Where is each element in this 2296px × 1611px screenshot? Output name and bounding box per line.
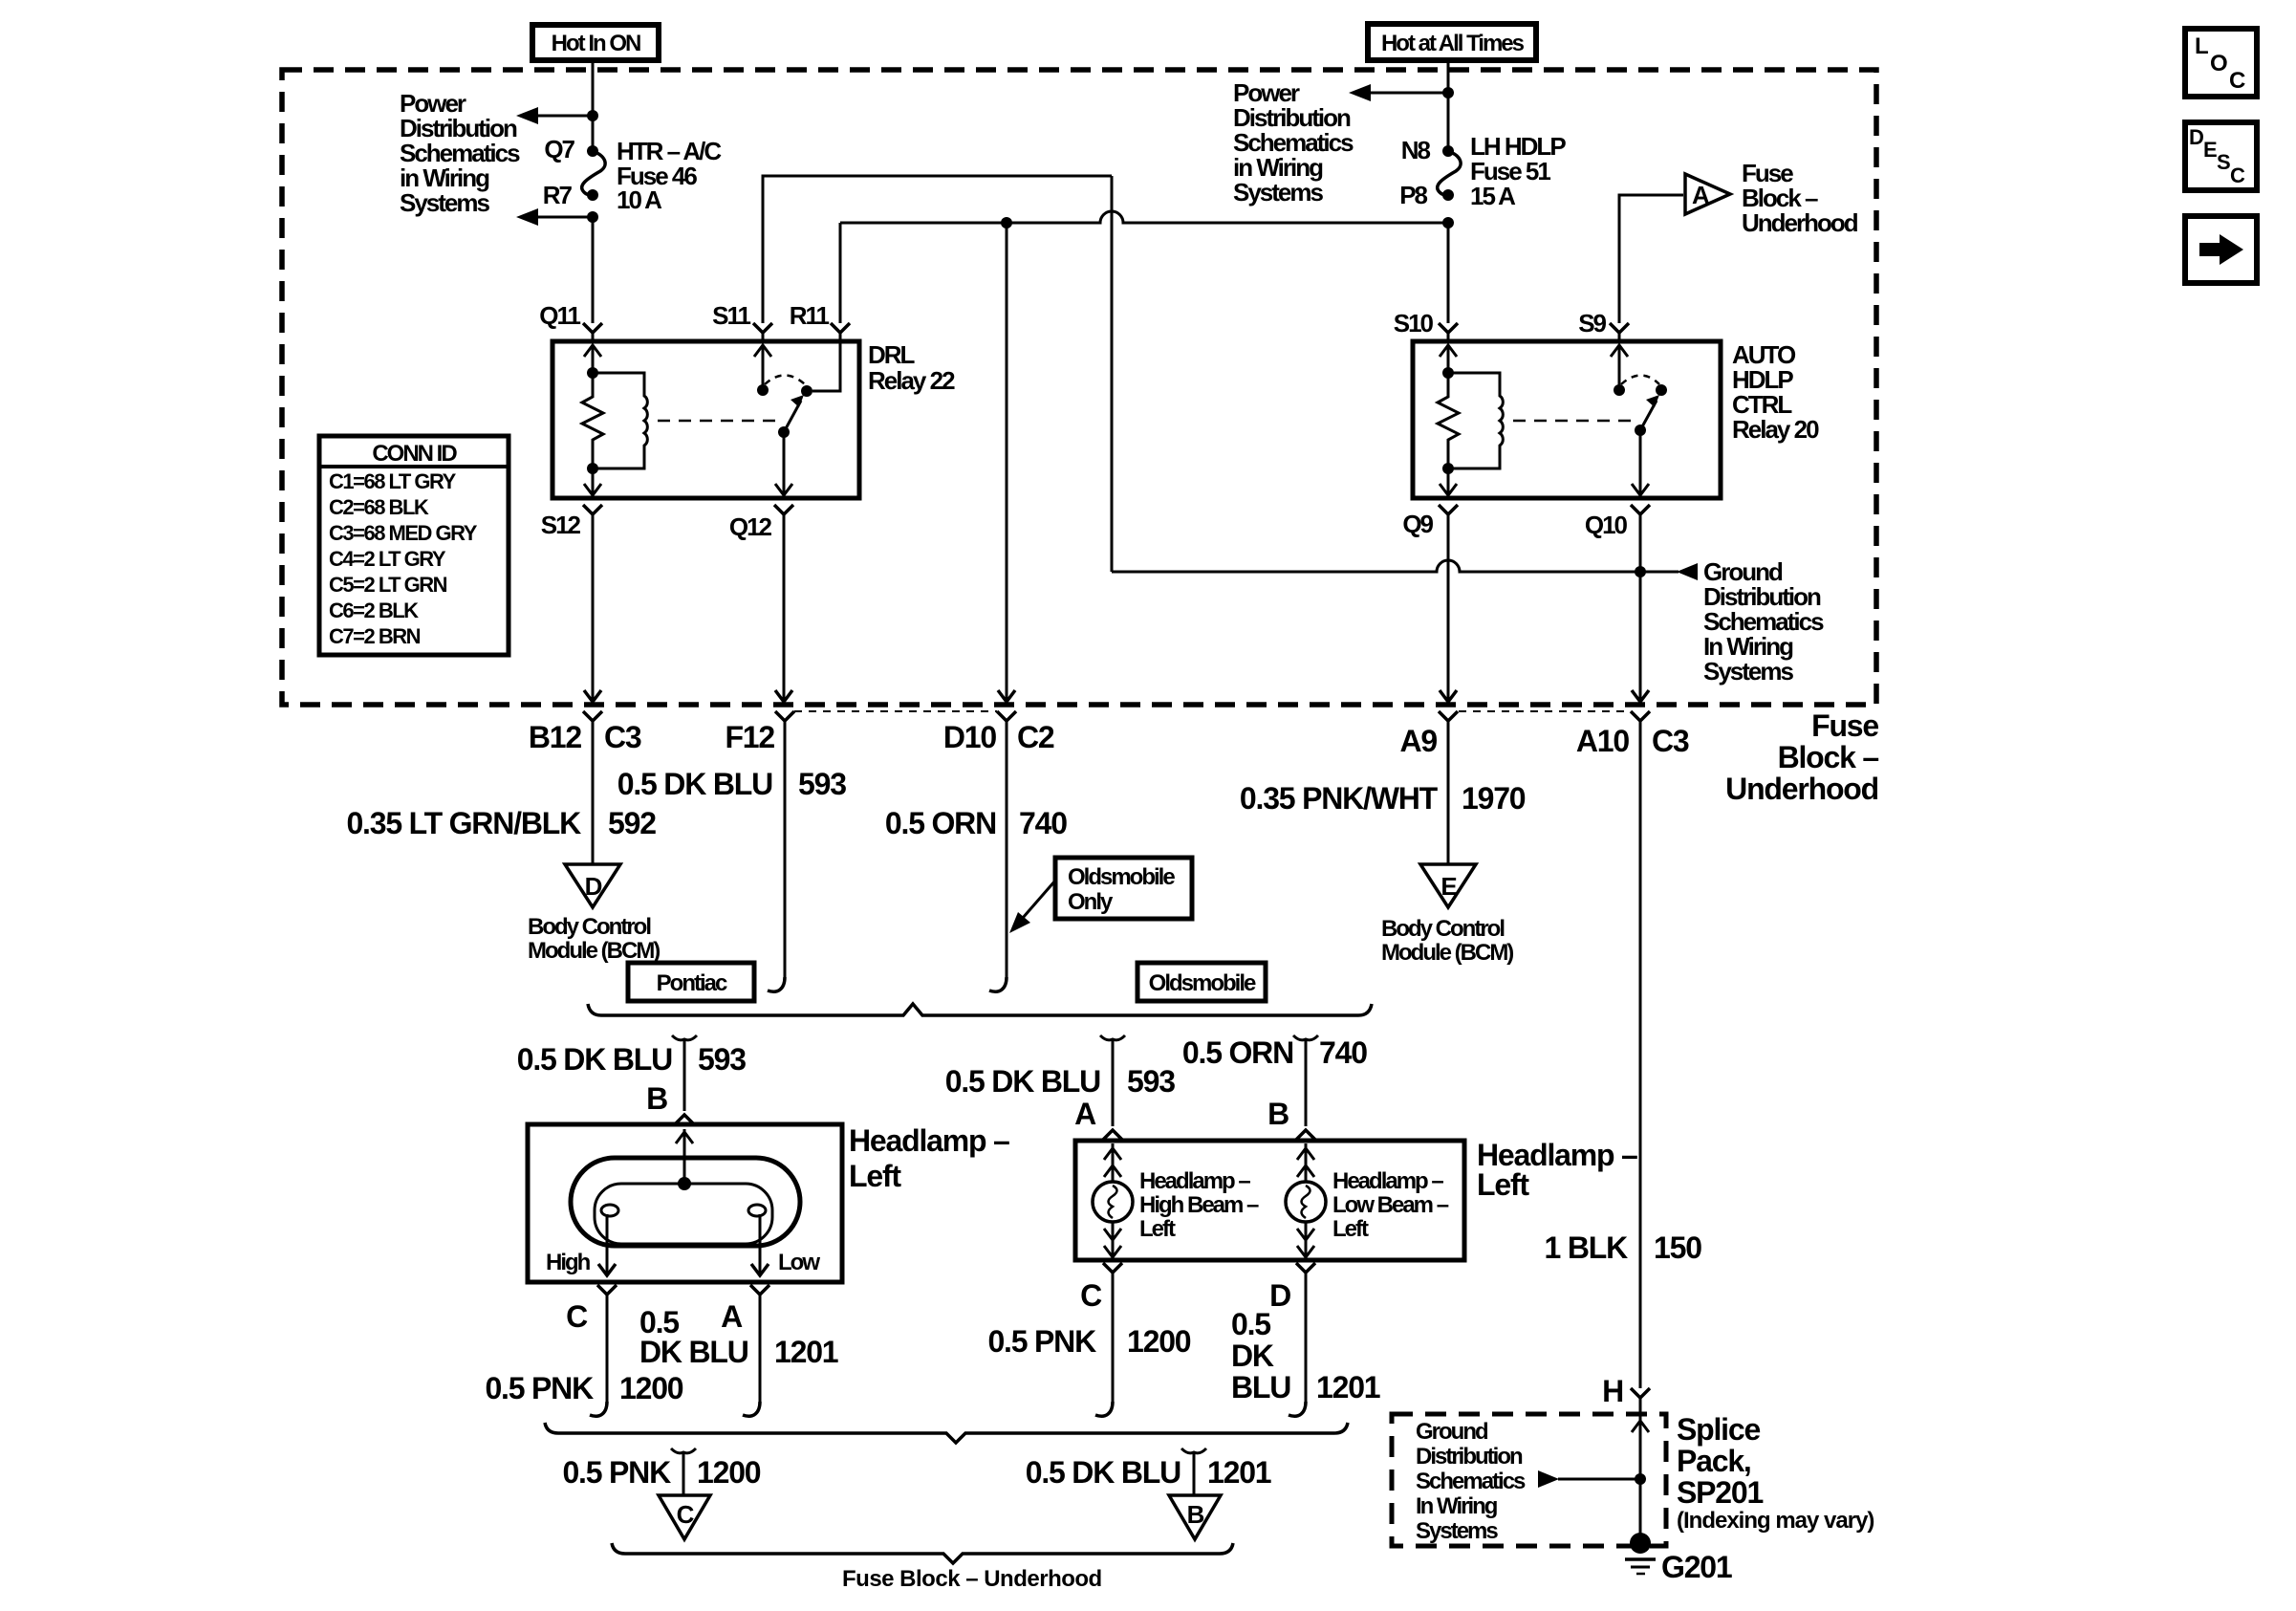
label AUTO HDLP CTRL Relay 20 [1732,340,1819,444]
wire switch arm to Q10 pin [1639,430,1642,495]
svg-text:1200: 1200 [619,1371,683,1405]
relay K20 coil branch entry arrow [1440,345,1457,357]
svg-text:Q11: Q11 [539,301,580,330]
svg-text:1201: 1201 [774,1335,838,1369]
DESC icon box [2185,122,2257,190]
wire A9 to BCM E [1447,720,1450,863]
svg-text:C: C [566,1299,588,1334]
svg-text:Q9: Q9 [1402,510,1433,538]
svg-text:C7=2 BRN: C7=2 BRN [329,624,421,648]
brace splice spread (top) [588,1004,1372,1015]
label Body Control Module (BCM) left [528,914,660,964]
label Headlamp - Left (Pontiac) [849,1123,1009,1193]
svg-text:Hot at All Times: Hot at All Times [1381,31,1525,56]
svg-text:Systems: Systems [1416,1518,1498,1544]
arrow icon box [2185,216,2257,283]
label Ground Distribution Schematics In Wiring Systems (in border) [1703,557,1824,686]
relay K22 DRL Relay box [552,341,859,498]
pin A connector (Pontiac) [750,1285,769,1295]
svg-text:B: B [1187,1500,1204,1529]
wire ground rail y=598 to Q10 with hop over Q9 wire [1112,560,1640,572]
svg-text:Left: Left [1477,1167,1529,1202]
ground G201 symbol [1630,1533,1651,1554]
svg-text:B: B [1267,1097,1289,1131]
wire y=233 from R11 corner to P8 junction with hop over x=1163 [840,211,1448,223]
svg-text:Pontiac: Pontiac [657,970,727,996]
svg-text:10 A: 10 A [617,185,662,214]
svg-text:Underhood: Underhood [1742,208,1858,237]
coupling dashed line coil to switch [658,420,776,423]
svg-text:A9: A9 [1399,724,1437,758]
label Oldsmobile box [1137,963,1266,1001]
splice pack SP201 dashed box [1392,1414,1666,1546]
lamp DS Pontiac Headlamp Left box [528,1124,842,1282]
svg-text:15 A: 15 A [1470,182,1516,210]
wire from Hot In ON down through border [592,60,595,151]
splice wire to flag B [1181,1448,1206,1453]
svg-text:0.5 PNK: 0.5 PNK [562,1455,671,1490]
svg-text:DK BLU: DK BLU [639,1335,748,1369]
pin B12/C3 connector [583,711,602,721]
node junction ground rail at Q10 [1635,566,1646,577]
svg-text:Left: Left [1332,1216,1369,1242]
svg-text:S10: S10 [1394,309,1434,337]
wire coil to Q9 pin [1447,468,1450,495]
node junction battery feed tap [1442,87,1454,98]
svg-text:Schematics: Schematics [1416,1469,1526,1494]
svg-text:A10: A10 [1576,724,1630,758]
svg-text:1201: 1201 [1316,1370,1380,1404]
svg-text:D10: D10 [943,720,997,754]
svg-text:592: 592 [608,806,656,840]
svg-text:Ground: Ground [1416,1419,1488,1445]
svg-text:Low Beam –: Low Beam – [1332,1192,1449,1218]
svg-text:(Indexing may vary): (Indexing may vary) [1677,1508,1874,1534]
svg-text:A: A [1692,181,1710,209]
Oldsmobile Only callout box [1009,858,1192,933]
Hot at All Times box [1368,24,1536,60]
wire down to Q11 [592,217,595,323]
wire S11 feed: S11 up, right along y=184 to x=1163 [763,176,1112,323]
svg-text:R7: R7 [543,181,573,209]
svg-text:A: A [1074,1097,1096,1131]
pin D10/C2 connector [997,711,1016,721]
wire F12 down to Pontiac splice [784,720,787,977]
wire S9 up to fuse block ref A [1619,195,1683,323]
resistor R (relay K22) [582,373,603,468]
svg-text:B: B [646,1081,667,1116]
inductor L coil (relay K22) [593,373,647,468]
svg-text:C: C [2229,68,2245,94]
svg-text:Relay 22: Relay 22 [868,366,955,395]
wire B12 to BCM D [592,720,595,863]
svg-text:0.5 ORN: 0.5 ORN [885,806,996,840]
svg-text:740: 740 [1019,806,1067,840]
filament Low [748,1205,766,1216]
svg-text:Oldsmobile: Oldsmobile [1149,970,1256,996]
svg-text:C3: C3 [604,720,641,754]
pin A10/C3 connector [1631,711,1650,721]
svg-text:DK: DK [1231,1339,1274,1373]
wire left arrow below fuse 46 [533,216,593,219]
svg-text:C2: C2 [1017,720,1054,754]
svg-text:Hot In ON: Hot In ON [552,31,640,56]
svg-text:Q10: Q10 [1585,511,1628,539]
switch SW (relay K22): common contact [757,384,769,396]
flag A fuse block underhood [1685,174,1730,214]
bulb Low Beam Left [1286,1143,1326,1257]
svg-text:Q12: Q12 [729,512,772,541]
brace splice gather (middle) [545,1423,1348,1443]
svg-text:SP201: SP201 [1677,1475,1763,1510]
node coil bottom [587,463,598,474]
svg-text:C5=2 LT GRN: C5=2 LT GRN [329,573,447,597]
flag C fuse block underhood [659,1495,710,1539]
fuse F46 HTR A/C 10A [582,145,605,201]
svg-text:150: 150 [1654,1230,1701,1265]
pin A9 connector [1439,711,1458,721]
svg-text:0.5 DK BLU: 0.5 DK BLU [945,1064,1100,1099]
bulb High Beam Left [1093,1143,1133,1257]
connector C2 dashed span [794,710,997,712]
svg-text:0.5 PNK: 0.5 PNK [485,1371,594,1405]
wire coil to S12 pin [592,468,595,495]
wire R11 feed: R11 up to y=233 corner [839,223,842,323]
svg-text:1201: 1201 [1207,1455,1271,1490]
LOC icon box [2185,29,2257,97]
svg-text:Pack,: Pack, [1677,1444,1751,1478]
svg-text:Module (BCM): Module (BCM) [528,938,660,964]
relay K20 AUTO HDLP CTRL Relay box [1413,341,1721,498]
inductor L coil (relay K20) [1448,373,1503,468]
svg-text:C1=68 LT GRY: C1=68 LT GRY [329,469,457,493]
svg-text:D: D [1269,1278,1290,1313]
svg-text:S12: S12 [541,511,581,539]
splice wire to flag C [671,1448,696,1453]
wire down to S10 [1447,223,1450,323]
label Headlamp - Left (Olds) [1477,1138,1637,1202]
switch travel dashed arc (K20) [1621,376,1659,385]
svg-text:High: High [546,1250,591,1275]
svg-text:593: 593 [698,1042,746,1077]
wire D10 drop from tap to border [1006,223,1008,703]
svg-text:L: L [2195,33,2208,59]
wire x=1163 down from y=184 to ground rail [1111,176,1114,572]
svg-text:O: O [2210,51,2227,76]
pin F12 connector [775,711,794,721]
svg-text:593: 593 [798,767,846,801]
label Ground Distribution Schematics In Wiring Systems (splice) [1416,1419,1526,1544]
wire stub to ground distribution arrow [1640,571,1679,574]
wire switch arm to Q12 pin [783,432,786,495]
svg-text:0.5 DK BLU: 0.5 DK BLU [517,1042,672,1077]
Oldsmobile B pin stub wire [1293,1035,1318,1040]
svg-text:S: S [2217,150,2230,174]
svg-text:E: E [2203,138,2217,162]
svg-text:D: D [2189,125,2203,149]
pin C connector (Olds) [1103,1263,1122,1273]
value label HTR - A/C Fuse 46 10 A [617,137,722,214]
svg-text:Q7: Q7 [544,135,574,163]
bulb outer envelope [571,1158,800,1246]
svg-text:C: C [677,1500,695,1529]
svg-text:S11: S11 [712,301,750,330]
arrow to ground distribution reference [1538,1470,1559,1488]
svg-text:Underhood: Underhood [1725,772,1878,806]
svg-text:N8: N8 [1401,136,1431,164]
label Power Distribution Schematics in Wiring Systems (left) [400,89,520,217]
svg-text:C3: C3 [1652,724,1689,758]
svg-text:Systems: Systems [1703,657,1793,686]
bulb inner envelope [595,1184,772,1244]
wire A10 ground run down to splice pack [1639,720,1642,1388]
node coil top [587,367,598,379]
wire label 0.5 DK BLU 1201 (Olds D) [1231,1307,1380,1404]
flag B fuse block underhood [1169,1495,1221,1539]
svg-text:Fuse: Fuse [1811,708,1878,743]
svg-text:1200: 1200 [1127,1324,1191,1359]
svg-text:E: E [1440,872,1457,901]
svg-text:Body Control: Body Control [1381,916,1504,942]
svg-text:593: 593 [1127,1064,1175,1099]
svg-text:Splice: Splice [1677,1412,1760,1447]
svg-text:S9: S9 [1578,309,1606,337]
svg-text:Left: Left [1139,1216,1176,1242]
svg-text:Only: Only [1068,889,1114,915]
svg-text:DRL: DRL [868,340,916,369]
svg-text:Systems: Systems [1233,178,1323,207]
brace fuse block underhood (bottom) [612,1543,1233,1563]
svg-text:0.5: 0.5 [1231,1307,1270,1341]
label Power Distribution Schematics in Wiring Systems (right) [1233,78,1354,207]
wire into splice pack with up arrow [1639,1398,1642,1541]
lamp Oldsmobile Headlamp Left box [1075,1141,1464,1260]
wire from Hot at All Times down [1447,60,1450,151]
svg-text:0.5 DK BLU: 0.5 DK BLU [1026,1455,1180,1490]
label Headlamp - High Beam - Left [1139,1168,1259,1242]
svg-text:1 BLK: 1 BLK [1545,1230,1629,1265]
wire left to power distribution reference [533,115,593,118]
value label LH HDLP Fuse 51 15 A [1470,132,1566,210]
switch common contact (K20) [1614,384,1625,396]
svg-text:0.5 ORN: 0.5 ORN [1182,1035,1293,1070]
fuse block underhood dashed border [282,70,1876,705]
svg-text:In Wiring: In Wiring [1416,1493,1498,1519]
svg-text:Body Control: Body Control [528,914,650,940]
wire label 0.5 DK BLU 1201 (Pontiac A) [639,1305,838,1369]
Hot In ON box [532,25,659,60]
svg-text:Block –: Block – [1778,740,1879,774]
resistor R (relay K20) [1438,373,1459,468]
label Pontiac box [628,963,754,1001]
switch SW (relay K20): S9 entry arrow [1611,345,1628,357]
svg-text:0.5 PNK: 0.5 PNK [987,1324,1096,1359]
svg-text:C6=2 BLK: C6=2 BLK [329,599,419,622]
svg-text:0.35 LT GRN/BLK: 0.35 LT GRN/BLK [346,806,581,840]
svg-text:Module (BCM): Module (BCM) [1381,940,1513,966]
svg-text:C: C [1080,1278,1102,1313]
svg-text:Headlamp –: Headlamp – [1332,1168,1443,1194]
CONN ID table [319,436,509,655]
svg-text:Oldsmobile: Oldsmobile [1068,864,1175,890]
svg-text:CONN ID: CONN ID [372,441,457,467]
svg-text:G201: G201 [1661,1550,1732,1584]
flag E to BCM [1420,864,1476,907]
label Body Control Module (BCM) right [1381,916,1513,966]
coupling dashed line coil to switch (K20) [1513,420,1633,423]
flag D to BCM [565,864,620,907]
label Headlamp - Low Beam - Left [1332,1168,1449,1242]
svg-text:0.5 DK BLU: 0.5 DK BLU [617,767,772,801]
svg-text:High Beam –: High Beam – [1139,1192,1259,1218]
svg-text:1200: 1200 [697,1455,761,1490]
filament High [601,1205,618,1216]
node junction P8 / relay feed [1442,217,1454,229]
svg-text:C3=68 MED GRY: C3=68 MED GRY [329,521,478,545]
svg-text:C: C [2230,163,2245,187]
svg-text:A: A [721,1299,743,1334]
node coil bottom (K20) [1442,463,1454,474]
relay K22 coil branch: entry arrow [584,345,601,357]
svg-text:Fuse Block – Underhood: Fuse Block – Underhood [842,1566,1102,1592]
switch contact from R11 [812,341,840,391]
svg-text:F12: F12 [725,720,774,754]
svg-text:BLU: BLU [1231,1370,1290,1404]
svg-text:C2=68 BLK: C2=68 BLK [329,495,429,519]
svg-text:B12: B12 [529,720,582,754]
label DRL Relay 22 [868,340,955,395]
fuse F51 LH HDLP 15A [1438,145,1461,201]
label Fuse Block - Underhood (right) [1725,708,1878,806]
connector C3 dashed span [1459,710,1630,712]
svg-text:Headlamp –: Headlamp – [1139,1168,1250,1194]
svg-text:H: H [1602,1374,1623,1408]
pin C connector (Pontiac) [597,1285,617,1295]
svg-text:P8: P8 [1399,181,1427,209]
Oldsmobile A pin stub wire [1100,1035,1125,1040]
svg-text:Distribution: Distribution [1416,1444,1523,1469]
svg-text:D: D [585,872,602,901]
node junction below fuse 46 [587,211,598,223]
pin S11 entry arrow [754,345,771,357]
pin D connector (Olds) [1296,1263,1315,1273]
node junction at ignition feed tap [587,110,598,121]
svg-text:Low: Low [778,1250,820,1275]
node junction splice SP201 [1635,1473,1646,1485]
bulb dual filament (Pontiac): feed wire [683,1129,686,1184]
wire D10 down to Oldsmobile splice [1006,720,1008,977]
switch arm with arrow (K20) [1635,425,1646,436]
label Splice Pack SP201 [1677,1412,1874,1534]
svg-text:Relay 20: Relay 20 [1732,415,1819,444]
svg-text:1970: 1970 [1462,781,1526,816]
wire left to power distribution reference (right) [1366,92,1448,95]
Pontiac B pin stub wire [672,1035,697,1040]
svg-text:Headlamp –: Headlamp – [849,1123,1009,1158]
svg-text:0.35 PNK/WHT: 0.35 PNK/WHT [1240,781,1439,816]
switch fixed contact (K20) [1656,384,1667,396]
switch travel dashed arc [765,376,805,385]
node coil top (K20) [1442,367,1454,379]
svg-text:Systems: Systems [400,188,489,217]
svg-text:740: 740 [1319,1035,1367,1070]
node junction D10 tap [1001,217,1012,229]
svg-text:R11: R11 [790,301,830,330]
switch arm with arrow [778,426,790,438]
svg-text:Left: Left [849,1159,901,1193]
svg-text:C4=2 LT GRY: C4=2 LT GRY [329,547,446,571]
